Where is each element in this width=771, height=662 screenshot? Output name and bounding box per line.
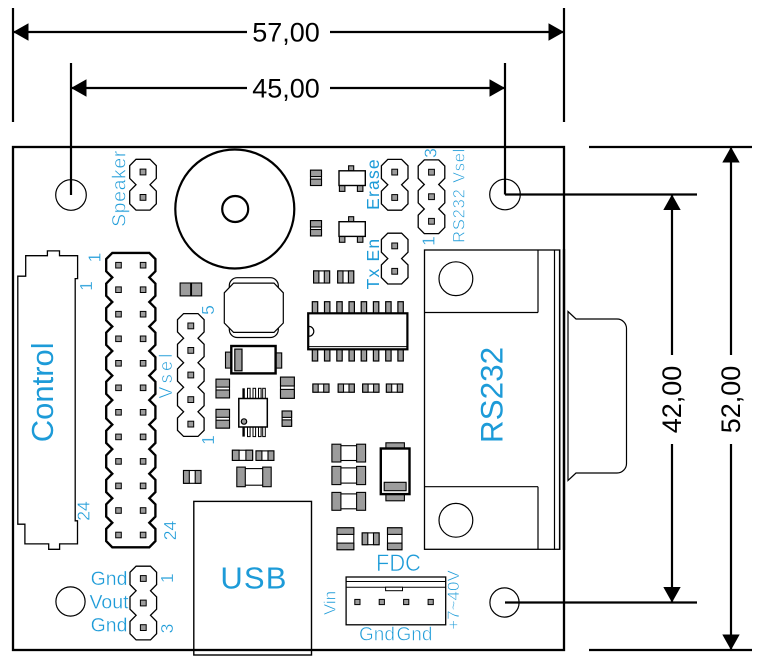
svg-text:Speaker: Speaker [109,150,131,227]
resistor R near buzzer [180,283,202,296]
capacitor C above Q3 [311,221,322,236]
svg-text:Vin: Vin [321,591,340,615]
capacitor C mid column 1 [332,444,366,462]
capacitor C left-bottom of U2 [216,409,230,428]
dimension 57,00 board width [13,8,564,122]
label RS232 Vsel pin 1 [419,236,439,246]
resistor R above USB right [256,451,274,461]
USB connector X3 [194,501,312,655]
svg-text:Gnd: Gnd [91,568,128,590]
svg-text:1: 1 [85,253,105,263]
FDC power connector X4 [346,577,446,625]
capacitor C right-bottom of U2 [282,411,292,426]
resistor R below TxEn left [314,271,330,283]
label Speaker [109,150,131,227]
svg-text:1: 1 [198,435,218,445]
buzzer BZ1 [175,150,294,269]
label Vsel pin 1 [198,435,218,445]
resistor R bottom row 2 [362,533,379,545]
svg-text:RS232 Vsel: RS232 Vsel [451,148,469,243]
mounting hole bottom-left [56,587,85,616]
board right edge over RS232 [563,249,565,550]
speaker header SPK [130,159,157,210]
resistor R left of USB [184,471,202,484]
mounting hole top-right [490,179,521,210]
resistor R above USB left [232,450,252,460]
svg-text:Vsel: Vsel [156,350,176,398]
label Control pin 1 [76,281,96,291]
IC U1 (SOIC-16) [308,302,407,361]
resistor R row 4 [386,384,402,392]
svg-text:Gnd: Gnd [359,624,395,645]
svg-text:3: 3 [421,148,441,158]
svg-text:45,00: 45,00 [252,74,320,104]
svg-text:Control: Control [25,342,60,442]
label Gnd Gnd [359,624,432,645]
svg-text:RS232: RS232 [474,347,510,443]
RS232 connector X2 (DB9) [425,250,627,549]
Vsel header JP2 [178,314,205,437]
dimension 45,00 hole spacing [71,63,505,195]
diode D1 [226,346,282,373]
svg-text:Gnd: Gnd [397,624,433,645]
capacitor C bottom row 3 [388,528,403,550]
label RS232 Vsel [451,148,469,243]
svg-text:1: 1 [76,281,96,291]
capacitor C tantalum [381,443,410,501]
dimension 42,00 hole spacing vertical [505,195,697,603]
label Tx En [363,238,383,290]
svg-text:3: 3 [157,624,177,634]
capacitor C mid column 3 [332,492,366,510]
label Vsel [156,350,176,398]
mounting hole bottom-right [490,588,519,617]
Control connector X1 [18,251,78,549]
svg-text:+7~40V: +7~40V [444,570,463,630]
crystal Q1 [224,278,283,338]
label Vin [321,591,340,615]
svg-text:42,00: 42,00 [657,366,687,434]
label FDC [376,549,421,576]
resistor R row 3 [363,384,379,392]
resistor R row 1 [313,384,329,392]
dimension 52,00 board height [589,147,752,650]
label power pin 1 [157,573,177,583]
capacitor C right-top of U2 [281,377,295,398]
resistor R row 2 [338,384,354,392]
label Erase [363,158,383,210]
capacitor C bottom row 1 [337,528,354,550]
svg-text:1: 1 [419,236,439,246]
svg-text:5: 5 [198,305,218,315]
svg-text:FDC: FDC [376,549,421,576]
svg-text:Vout: Vout [89,592,129,614]
label RS232 Vsel pin 3 [421,148,441,158]
svg-text:USB: USB [220,560,287,595]
RS232 Vsel header JP5 [418,160,445,234]
label +7~40V [444,570,463,630]
capacitor C above Q2 [311,170,322,185]
transistor Q2 (SOT-23) [339,166,365,192]
capacitor C mid column 2 [332,466,366,484]
svg-text:Erase: Erase [363,158,383,210]
capacitor C above USB [237,467,271,487]
mounting hole top-left [56,180,87,211]
24-pin header SV1 [106,253,155,547]
transistor Q3 (SOT-23) [339,217,365,243]
label power pin 3 [157,624,177,634]
label USB [220,560,287,595]
svg-text:57,00: 57,00 [252,18,320,48]
Erase header JP3 [381,159,408,210]
svg-text:24: 24 [74,501,94,521]
svg-text:Tx En: Tx En [363,238,383,290]
svg-text:Gnd: Gnd [91,615,128,637]
label header pin 24 [160,521,180,541]
label header pin 1 [85,253,105,263]
label Control [25,342,60,442]
svg-text:24: 24 [160,521,180,541]
label RS232 [474,347,510,443]
capacitor C left-top of U2 [216,379,230,398]
svg-text:52,00: 52,00 [716,366,746,434]
label Vsel pin 5 [198,305,218,315]
PCB board outline [13,147,564,650]
label Control pin 24 [74,501,94,521]
Tx En header JP4 [381,233,408,284]
svg-text:1: 1 [157,573,177,583]
resistor R below TxEn right [338,271,354,283]
label Gnd top [91,568,128,590]
power header JP6 [130,566,157,640]
label Gnd bottom [91,615,128,637]
label Vout [89,592,129,614]
IC U2 (MSOP-10) [239,388,267,436]
